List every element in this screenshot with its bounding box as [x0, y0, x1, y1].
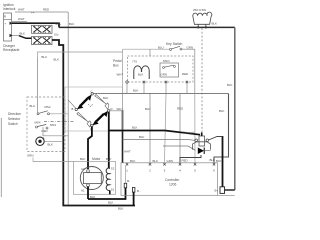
svg-text:S1: S1 — [111, 188, 115, 192]
svg-text:Solenoid: Solenoid — [183, 131, 195, 135]
svg-text:BLK: BLK — [132, 126, 138, 130]
svg-text:Motor: Motor — [92, 157, 101, 161]
wire RED stub — [43, 127, 68, 136]
pedal box label — [113, 59, 122, 68]
svg-text:Interlock: Interlock — [3, 7, 16, 11]
svg-text:BLK: BLK — [139, 135, 145, 139]
svg-text:BLK: BLK — [103, 96, 109, 100]
thick wire B+ to right edge — [225, 189, 235, 191]
pedal wire labels — [117, 72, 189, 77]
B+ terminal — [215, 187, 225, 194]
MS2 contact — [30, 104, 51, 115]
wire RED vertical to F&R — [68, 12, 76, 206]
svg-text:BLU: BLU — [30, 104, 36, 108]
svg-text:RED: RED — [42, 129, 48, 133]
svg-text:Pedal: Pedal — [113, 59, 122, 63]
motor — [80, 167, 103, 193]
ITS coil — [133, 60, 150, 80]
charger receptacle — [4, 13, 13, 41]
controller bottom right stub — [218, 195, 235, 197]
wire right BLK down to pin 6 — [214, 94, 229, 163]
svg-text:BLK: BLK — [80, 157, 86, 161]
outline arrow C-D — [95, 95, 109, 110]
thick wire B- down — [133, 192, 135, 205]
svg-text:BLU: BLU — [42, 55, 48, 59]
svg-text:MS4: MS4 — [35, 121, 41, 125]
svg-text:S2: S2 — [111, 167, 115, 171]
svg-text:BLK: BLK — [90, 195, 96, 199]
direction selector label — [8, 112, 21, 126]
wire WHT to receptacle — [12, 17, 27, 22]
svg-text:BLK: BLK — [48, 143, 54, 147]
MSO switch — [160, 59, 179, 77]
svg-text:WHT: WHT — [117, 73, 124, 77]
svg-text:BLK: BLK — [153, 159, 159, 163]
svg-text:RED: RED — [182, 158, 188, 162]
resistor 250 ohm 5W — [193, 8, 217, 28]
B- terminal — [132, 188, 140, 194]
svg-text:R: R — [4, 15, 6, 19]
wire solenoid right to B+ — [222, 136, 224, 187]
svg-text:Controller: Controller — [165, 178, 180, 182]
wire pin4 RED feed — [179, 94, 181, 163]
svg-text:GRN: GRN — [167, 159, 173, 163]
charger receptacle label — [3, 44, 20, 52]
svg-text:BLU: BLU — [158, 45, 164, 49]
F&R gray box — [65, 87, 123, 131]
wire key switch BLU down — [149, 49, 151, 56]
bus wire y93.5 — [93, 93, 229, 95]
wire pin3 feed — [165, 94, 167, 163]
motor box — [73, 161, 115, 194]
node labels BLU BLK — [42, 55, 60, 62]
svg-text:M-: M- — [127, 179, 130, 183]
main BLK line labels — [55, 22, 75, 26]
svg-text:WHT: WHT — [124, 150, 131, 154]
svg-text:WHT: WHT — [18, 8, 25, 12]
svg-text:BLK: BLK — [133, 89, 139, 93]
svg-text:A2: A2 — [81, 167, 85, 171]
svg-text:Direction: Direction — [8, 112, 21, 116]
svg-text:BLK: BLK — [138, 73, 144, 77]
svg-text:RED: RED — [177, 107, 183, 111]
node circles — [91, 93, 93, 95]
svg-text:D: D — [111, 107, 113, 111]
wire BLU to direction switch — [37, 58, 39, 113]
thin wire to diode anode — [163, 146, 196, 150]
wire pin2 feed — [149, 94, 151, 163]
svg-text:BLK: BLK — [216, 159, 222, 163]
pedal box pins — [126, 81, 188, 83]
outline arrow B-A — [77, 112, 91, 127]
relay box 2 — [32, 37, 53, 45]
direction selector dashed box — [27, 97, 65, 152]
relay box 1 — [32, 25, 53, 33]
svg-text:BLK: BLK — [210, 158, 216, 162]
svg-text:MS2: MS2 — [45, 105, 51, 109]
svg-text:MS3: MS3 — [50, 123, 56, 127]
wire right edge vertical — [234, 27, 236, 190]
svg-text:B+: B+ — [215, 189, 219, 193]
pedal pin stubs — [127, 83, 187, 93]
svg-text:GRN: GRN — [187, 45, 193, 49]
svg-text:SIL-: SIL- — [54, 33, 59, 37]
svg-text:WHT: WHT — [18, 17, 25, 21]
mech link dash-dot — [44, 121, 74, 123]
controller pins — [126, 163, 215, 165]
svg-text:BLK: BLK — [69, 22, 75, 26]
svg-text:BLK: BLK — [106, 157, 112, 161]
dashed wire from resistor to solenoid — [201, 28, 203, 134]
thick wire D down to S2 and solenoid line — [109, 112, 110, 168]
M- terminal — [124, 166, 130, 188]
field coil — [106, 167, 115, 192]
svg-text:Switch: Switch — [8, 122, 18, 126]
MS4 / MS3 contacts — [35, 121, 57, 130]
svg-text:Selector: Selector — [8, 117, 21, 121]
wire D right — [110, 110, 123, 112]
svg-text:BLK: BLK — [20, 32, 26, 36]
F&R diamond — [72, 90, 113, 132]
wire pin5 feed — [194, 93, 196, 163]
svg-text:++: ++ — [31, 11, 35, 15]
wire solenoid to pin4 — [180, 155, 201, 163]
thin wire to solenoid coil — [123, 139, 195, 142]
svg-text:RED: RED — [182, 72, 188, 76]
svg-text:BLK: BLK — [227, 83, 233, 87]
main BLK wire to right edge — [59, 26, 235, 28]
key switch — [123, 42, 195, 50]
inner dashes — [88, 104, 93, 107]
thick wire S1 stub — [109, 190, 111, 194]
harness box line — [38, 52, 123, 58]
svg-text:GRN: GRN — [27, 154, 33, 158]
wire WHT/RED top — [15, 8, 68, 15]
thick arrow A-D — [96, 114, 104, 122]
wire MS2 to F&R — [50, 113, 69, 115]
reverse buzzer — [27, 137, 63, 157]
svg-text:Key Switch: Key Switch — [166, 42, 182, 46]
svg-text:A1: A1 — [81, 189, 85, 193]
thick wire from relay 2 down left side — [52, 40, 135, 206]
ignition interlock label — [3, 3, 16, 11]
svg-text:BLK: BLK — [212, 22, 218, 26]
svg-text:BLK: BLK — [118, 207, 124, 211]
border remnant left edge — [0, 118, 2, 197]
svg-text:B -: B - — [137, 189, 141, 193]
svg-text:BLK: BLK — [54, 58, 60, 62]
svg-text:SIL+: SIL+ — [55, 22, 61, 26]
svg-text:BLK: BLK — [145, 107, 151, 111]
thick arrow B-C — [81, 98, 88, 105]
svg-text:BLK: BLK — [219, 109, 225, 113]
svg-text:BLK: BLK — [108, 201, 114, 205]
svg-text:1206: 1206 — [169, 183, 177, 187]
svg-text:B: B — [72, 107, 74, 111]
wire C to bus — [93, 93, 228, 95]
diode — [198, 148, 211, 155]
thick wire to solenoid — [109, 131, 201, 135]
svg-text:BLK: BLK — [130, 159, 136, 163]
svg-text:250 Ω 5W: 250 Ω 5W — [193, 8, 206, 12]
thick bus M- — [88, 188, 126, 199]
pedal box dashed — [128, 56, 194, 82]
svg-text:MSO: MSO — [163, 59, 170, 63]
svg-text:Box: Box — [113, 64, 119, 68]
wire GRN to motor box — [33, 158, 73, 162]
thick wire receptacle+ to relay box — [12, 23, 59, 27]
controller label — [165, 178, 180, 187]
wire key switch GRN down — [194, 49, 196, 92]
svg-text:Receptacle: Receptacle — [3, 48, 20, 52]
wire WHT down mid — [122, 49, 124, 110]
svg-text:GRN: GRN — [161, 73, 167, 77]
controller box — [121, 163, 218, 196]
svg-text:ITS: ITS — [133, 60, 138, 64]
thick wire A to motor A2 — [88, 127, 92, 170]
solenoid — [183, 131, 211, 150]
wire BLK receptacle- — [12, 32, 32, 39]
thick wire A1 down to bus — [87, 187, 89, 200]
svg-text:RED: RED — [43, 8, 49, 12]
